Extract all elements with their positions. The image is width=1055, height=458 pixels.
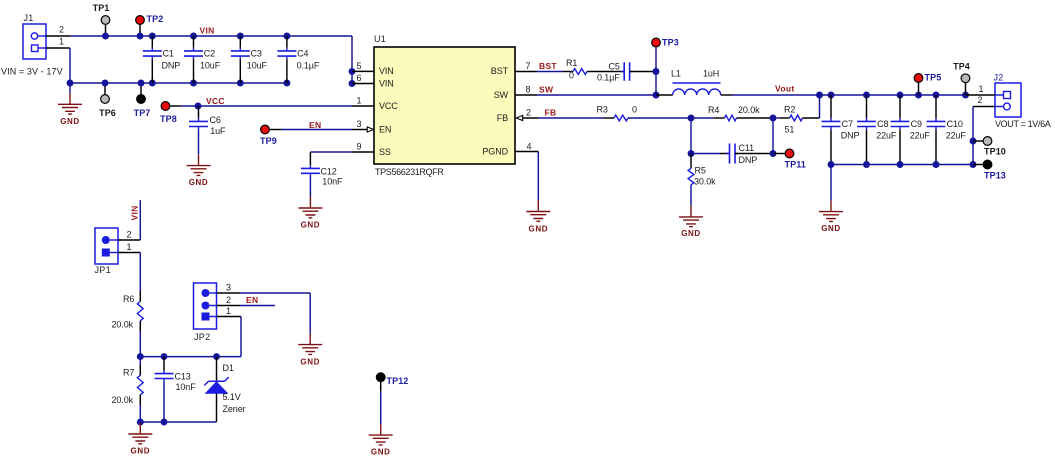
svg-text:10nF: 10nF xyxy=(322,177,343,187)
svg-text:TP12: TP12 xyxy=(387,376,409,386)
svg-text:TP6: TP6 xyxy=(99,108,116,118)
svg-text:TP9: TP9 xyxy=(260,136,277,146)
svg-text:TP13: TP13 xyxy=(984,171,1006,181)
svg-text:5: 5 xyxy=(357,61,362,71)
svg-text:C10: C10 xyxy=(947,119,963,129)
svg-text:VIN: VIN xyxy=(379,78,394,88)
svg-text:R4: R4 xyxy=(708,105,719,115)
svg-text:GND: GND xyxy=(131,446,151,455)
svg-text:C7: C7 xyxy=(842,119,853,129)
svg-text:20.0k: 20.0k xyxy=(112,320,134,330)
svg-text:GND: GND xyxy=(189,178,209,187)
svg-text:R5: R5 xyxy=(695,166,706,176)
svg-text:1: 1 xyxy=(979,84,984,94)
svg-text:EN: EN xyxy=(246,295,258,305)
svg-text:0.1µF: 0.1µF xyxy=(297,61,320,71)
svg-text:2: 2 xyxy=(59,25,64,35)
svg-text:U1: U1 xyxy=(374,34,386,44)
svg-text:10nF: 10nF xyxy=(176,382,197,392)
svg-text:1: 1 xyxy=(59,37,64,47)
svg-text:J1: J1 xyxy=(24,13,34,23)
svg-text:VIN: VIN xyxy=(200,26,215,36)
svg-text:20.0k: 20.0k xyxy=(112,395,134,405)
svg-text:VIN: VIN xyxy=(379,66,394,76)
svg-text:VOUT = 1V/6A: VOUT = 1V/6A xyxy=(995,119,1051,129)
svg-text:SW: SW xyxy=(539,85,554,95)
svg-text:6: 6 xyxy=(357,73,362,83)
svg-text:FB: FB xyxy=(497,113,508,123)
svg-text:2: 2 xyxy=(526,108,531,118)
svg-text:SW: SW xyxy=(494,90,509,100)
svg-text:C4: C4 xyxy=(297,48,308,58)
svg-text:20.0k: 20.0k xyxy=(738,105,760,115)
svg-text:1: 1 xyxy=(127,242,132,252)
svg-text:BST: BST xyxy=(491,66,509,76)
svg-text:SS: SS xyxy=(379,147,391,157)
svg-text:TP1: TP1 xyxy=(93,3,110,13)
svg-text:C9: C9 xyxy=(911,119,922,129)
svg-text:VCC: VCC xyxy=(379,101,398,111)
svg-text:4: 4 xyxy=(527,142,532,152)
svg-text:FB: FB xyxy=(545,108,557,118)
svg-text:GND: GND xyxy=(821,224,841,233)
svg-text:D1: D1 xyxy=(223,363,234,373)
svg-text:J2: J2 xyxy=(994,73,1004,83)
svg-text:0.1µF: 0.1µF xyxy=(597,73,620,83)
svg-text:9: 9 xyxy=(357,142,362,152)
svg-text:C13: C13 xyxy=(175,372,191,382)
svg-text:GND: GND xyxy=(681,229,701,238)
svg-text:1uF: 1uF xyxy=(210,126,226,136)
svg-text:C5: C5 xyxy=(609,62,620,72)
svg-text:10uF: 10uF xyxy=(200,61,221,71)
svg-text:C8: C8 xyxy=(877,119,888,129)
svg-text:2: 2 xyxy=(226,295,231,305)
svg-text:TP8: TP8 xyxy=(160,114,177,124)
svg-text:TP5: TP5 xyxy=(925,73,942,83)
svg-text:DNP: DNP xyxy=(841,131,860,141)
svg-text:Vout: Vout xyxy=(775,84,794,94)
svg-text:22uF: 22uF xyxy=(876,131,897,141)
svg-text:VIN: VIN xyxy=(130,205,140,220)
svg-text:JP1: JP1 xyxy=(95,265,111,275)
svg-text:1uH: 1uH xyxy=(703,69,719,79)
svg-text:R1: R1 xyxy=(566,58,577,68)
svg-text:R6: R6 xyxy=(123,294,134,304)
svg-text:C1: C1 xyxy=(163,48,174,58)
svg-text:30.0k: 30.0k xyxy=(694,177,716,187)
svg-text:7: 7 xyxy=(526,61,531,71)
svg-text:TP4: TP4 xyxy=(953,62,970,72)
svg-text:R3: R3 xyxy=(597,105,608,115)
svg-text:GND: GND xyxy=(529,224,549,233)
svg-text:3: 3 xyxy=(357,119,362,129)
svg-text:R2: R2 xyxy=(784,105,795,115)
svg-text:51: 51 xyxy=(785,125,795,135)
svg-text:8: 8 xyxy=(526,85,531,95)
svg-text:TP7: TP7 xyxy=(134,108,151,118)
svg-text:EN: EN xyxy=(309,120,321,130)
svg-text:Zener: Zener xyxy=(223,404,246,414)
svg-text:C2: C2 xyxy=(204,48,215,58)
svg-text:GND: GND xyxy=(300,358,320,367)
svg-text:2: 2 xyxy=(978,95,983,105)
svg-text:TP2: TP2 xyxy=(147,14,164,24)
svg-text:GND: GND xyxy=(371,448,391,457)
svg-text:DNP: DNP xyxy=(739,155,758,165)
svg-text:TP3: TP3 xyxy=(662,38,679,48)
svg-text:R7: R7 xyxy=(123,368,134,378)
svg-text:TPS566231RQFR: TPS566231RQFR xyxy=(375,167,444,177)
svg-text:VIN = 3V - 17V: VIN = 3V - 17V xyxy=(1,67,63,77)
svg-text:C3: C3 xyxy=(251,48,262,58)
svg-text:5.1V: 5.1V xyxy=(223,392,241,402)
svg-text:TP10: TP10 xyxy=(984,147,1006,157)
svg-text:3: 3 xyxy=(226,283,231,293)
svg-text:BST: BST xyxy=(539,61,557,71)
svg-text:PGND: PGND xyxy=(482,146,508,156)
svg-text:10uF: 10uF xyxy=(247,61,268,71)
svg-text:L1: L1 xyxy=(671,69,681,79)
svg-text:0: 0 xyxy=(569,71,574,81)
svg-text:GND: GND xyxy=(301,221,321,230)
svg-text:1: 1 xyxy=(226,306,231,316)
svg-text:1: 1 xyxy=(357,96,362,106)
svg-text:TP11: TP11 xyxy=(785,160,806,170)
svg-text:22uF: 22uF xyxy=(910,131,931,141)
svg-text:DNP: DNP xyxy=(162,61,181,71)
svg-text:EN: EN xyxy=(379,124,391,134)
svg-text:C6: C6 xyxy=(210,115,221,125)
svg-text:GND: GND xyxy=(60,117,80,126)
svg-text:C12: C12 xyxy=(321,166,337,176)
svg-text:C11: C11 xyxy=(739,143,755,153)
svg-text:22uF: 22uF xyxy=(946,131,967,141)
svg-text:JP2: JP2 xyxy=(194,332,210,342)
svg-text:2: 2 xyxy=(127,230,132,240)
svg-text:0: 0 xyxy=(632,105,637,115)
svg-text:VCC: VCC xyxy=(206,96,225,106)
